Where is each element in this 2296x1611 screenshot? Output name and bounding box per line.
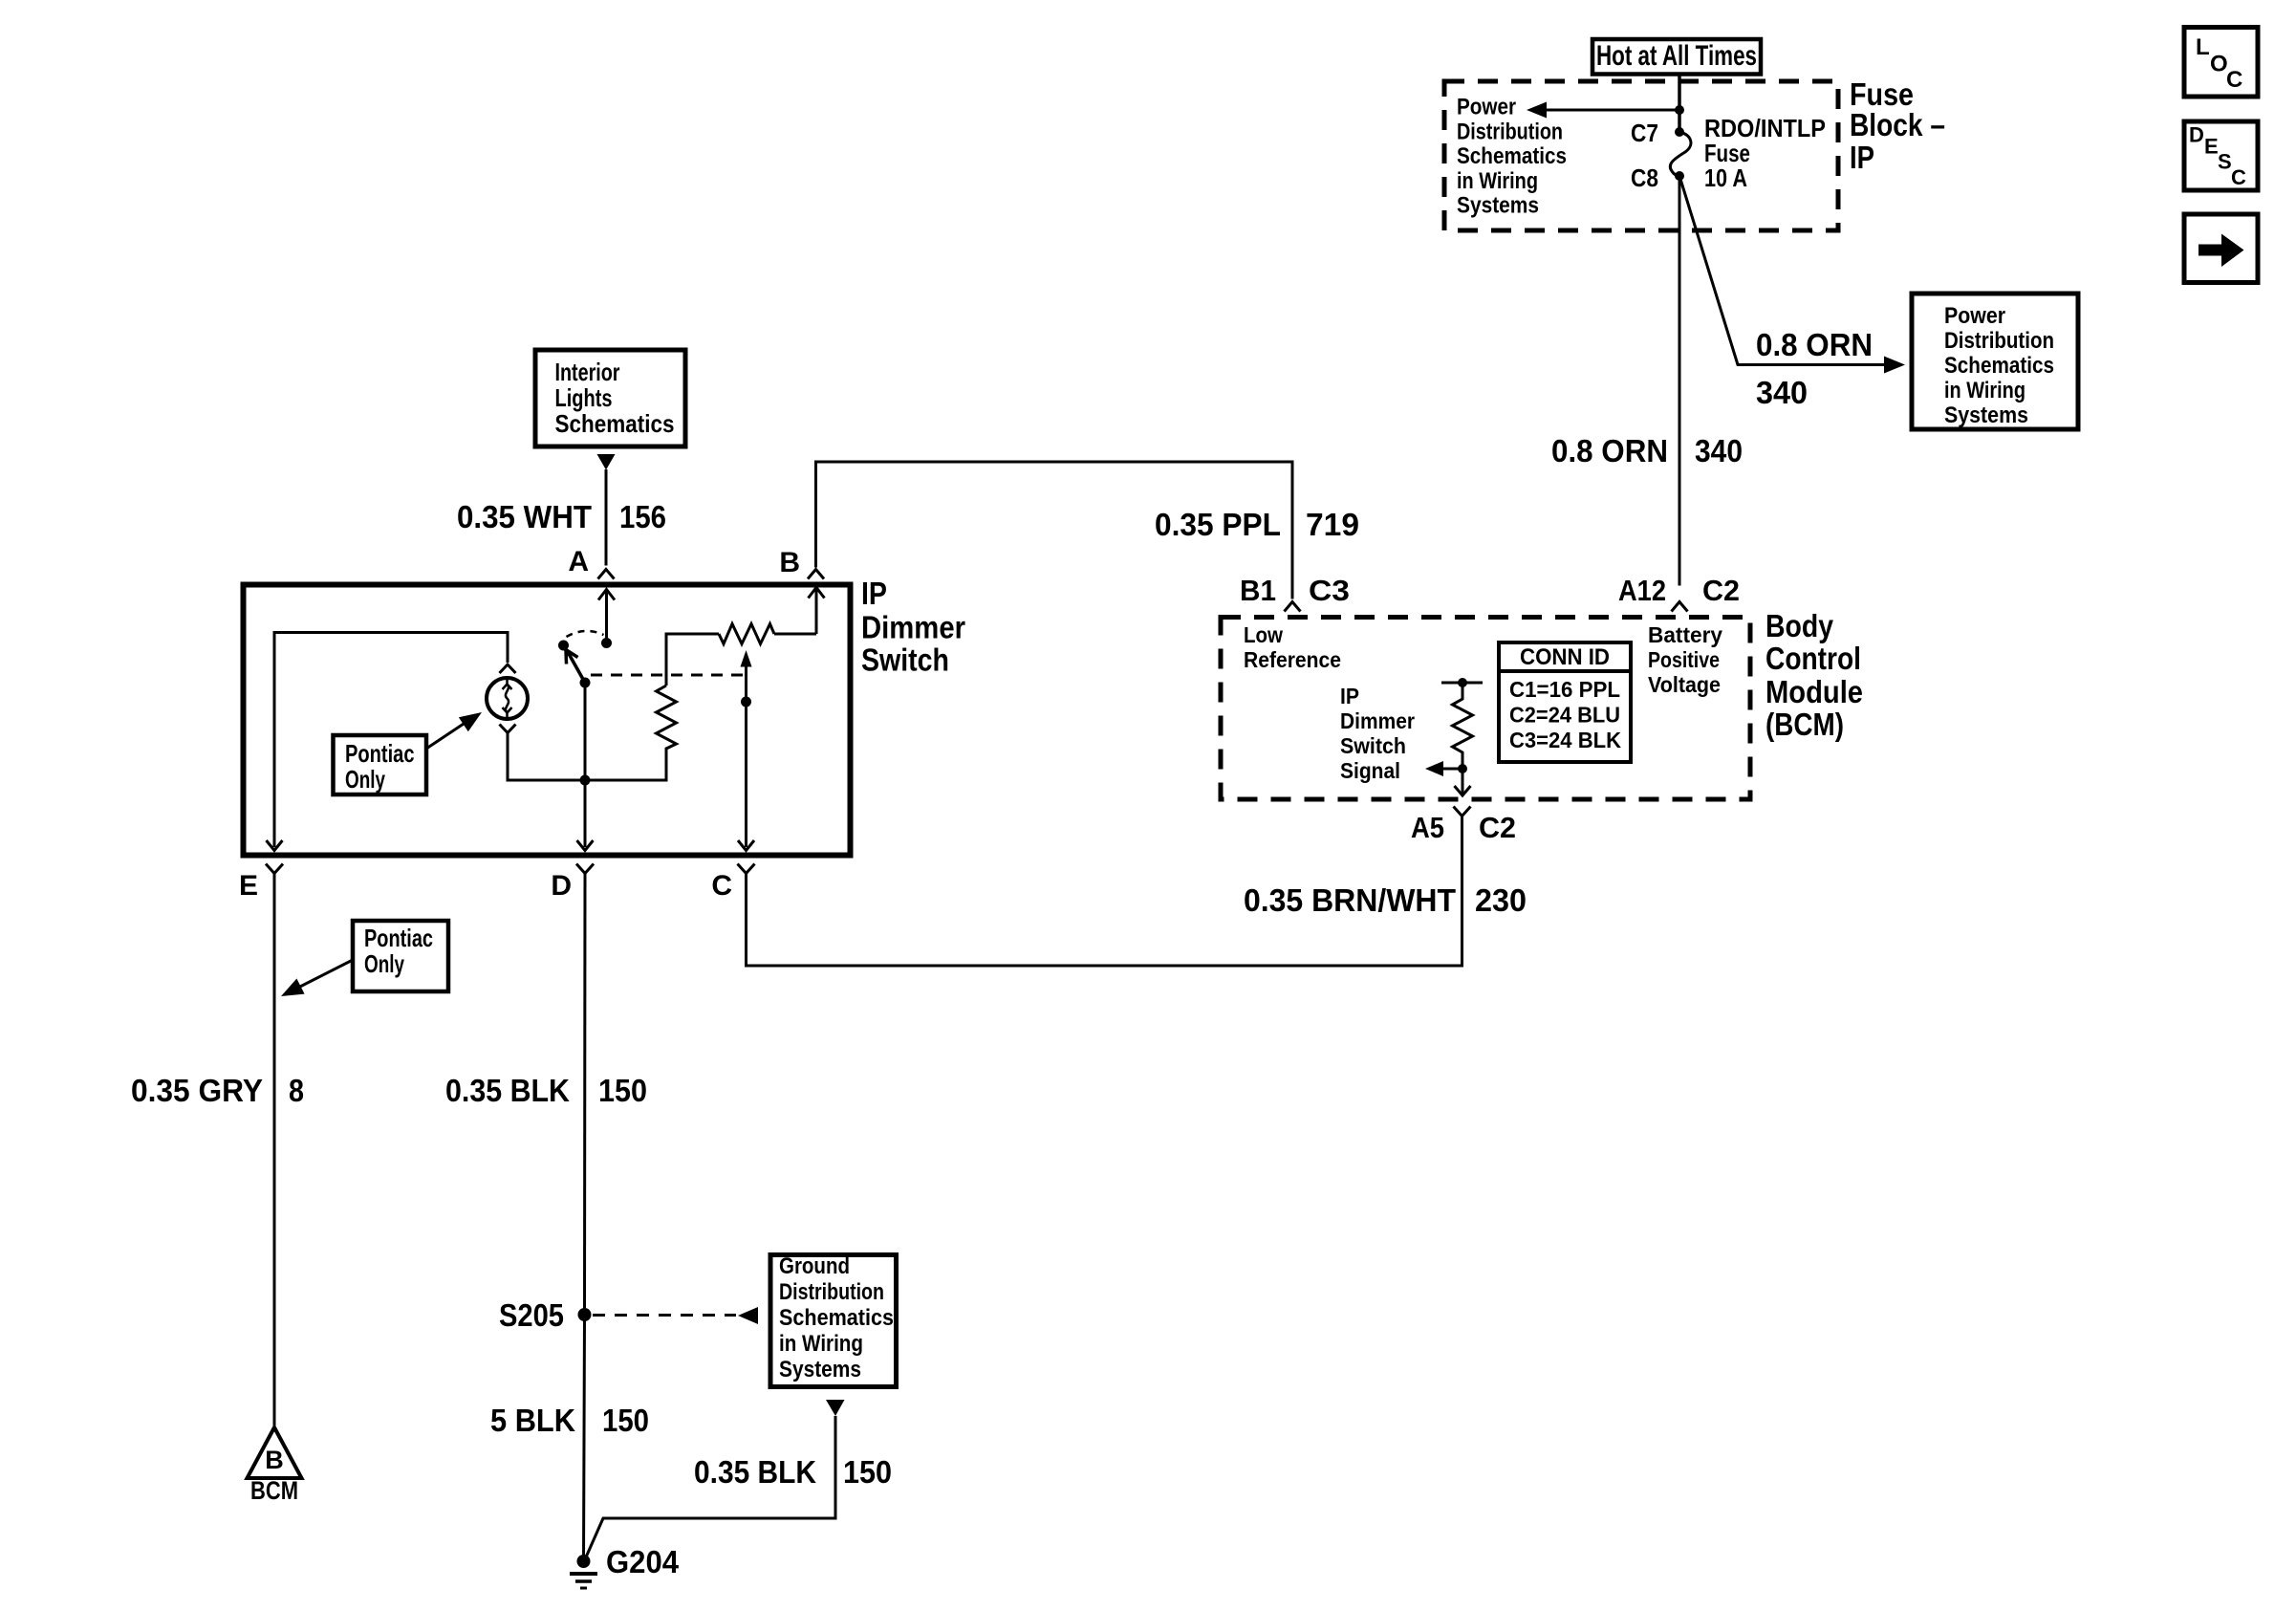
switch blade SW1 — [566, 650, 585, 684]
svg-text:150: 150 — [602, 1403, 649, 1438]
wire 0.8 ORN 340 branch from C8 to power distribution — [1679, 176, 1905, 374]
svg-text:0.35 GRY: 0.35 GRY — [131, 1073, 263, 1108]
svg-text:Distribution: Distribution — [779, 1279, 884, 1305]
svg-text:Hot at All Times: Hot at All Times — [1596, 40, 1757, 72]
svg-text:Control: Control — [1765, 641, 1861, 676]
wire 0.35 GRY 8 from E to BCM — [273, 874, 276, 1426]
wire from Hot at All Times into fuse block — [1678, 75, 1681, 131]
svg-text:S205: S205 — [499, 1297, 564, 1333]
wire 0.8 ORN 340 main battery feed to BCM A12 — [1679, 176, 1681, 586]
svg-text:719: 719 — [1306, 507, 1359, 542]
arrow IP dimmer switch signal — [1425, 761, 1462, 776]
node Low Reference — [1244, 622, 1341, 672]
wire 0.35 BRN/WHT 230 from dimmer C to BCM A5 — [747, 816, 1462, 967]
node IP Dimmer Switch Signal — [1340, 684, 1415, 783]
label 0.8 ORN 340 (main) — [1551, 433, 1743, 468]
label 0.35 BLK 150 (branch) — [694, 1454, 892, 1490]
svg-text:Reference: Reference — [1244, 647, 1341, 672]
svg-text:C2: C2 — [1479, 811, 1516, 844]
Hot at All Times box — [1592, 39, 1761, 75]
svg-text:D: D — [551, 870, 572, 902]
svg-text:A: A — [568, 546, 589, 577]
svg-text:150: 150 — [843, 1454, 892, 1490]
pin A12 connector — [1618, 574, 1740, 612]
fuse value label RDO/INTLP Fuse 10 A — [1704, 114, 1826, 192]
svg-text:IP: IP — [861, 576, 887, 611]
potentiometer wiper arrow — [741, 650, 752, 847]
node switch common — [601, 638, 612, 648]
svg-text:230: 230 — [1475, 882, 1527, 918]
wire D branch down — [584, 683, 587, 847]
svg-text:340: 340 — [1695, 433, 1743, 468]
svg-text:Power: Power — [1457, 95, 1516, 120]
junction node above fuse — [1675, 105, 1684, 115]
CONN ID table — [1499, 642, 1631, 762]
arrow Pontiac Only to E wire — [277, 960, 353, 1004]
pin A5 connector — [1411, 807, 1516, 845]
node blade junction — [580, 678, 591, 688]
wire from resistor to pin A5 with down arrow — [1455, 769, 1471, 795]
svg-text:in Wiring: in Wiring — [1457, 168, 1538, 194]
ground G204 — [570, 1544, 680, 1588]
Body Control Module (BCM) label — [1765, 608, 1863, 742]
svg-text:Switch: Switch — [1340, 733, 1406, 758]
wire lamp branch upper — [274, 633, 508, 848]
svg-text:Systems: Systems — [1457, 193, 1539, 219]
svg-text:C3: C3 — [1309, 574, 1350, 607]
svg-text:C3=24 BLK: C3=24 BLK — [1509, 728, 1621, 752]
arrow Pontiac Only to lamp — [426, 705, 487, 749]
mechanical link dashed wire — [591, 674, 746, 677]
svg-text:in Wiring: in Wiring — [779, 1331, 863, 1357]
svg-text:5 BLK: 5 BLK — [490, 1403, 575, 1438]
svg-text:Positive: Positive — [1648, 647, 1720, 672]
pin E connector — [239, 864, 283, 903]
resistor R1 dimmer (horizontal) — [719, 624, 774, 644]
svg-text:Systems: Systems — [779, 1357, 861, 1382]
arrow into box bottom at D — [577, 840, 594, 851]
Pontiac Only box 1 — [334, 735, 427, 795]
svg-text:0.35 WHT: 0.35 WHT — [457, 499, 592, 534]
dashed reference wire from S205 — [593, 1307, 758, 1324]
svg-text:0.8 ORN: 0.8 ORN — [1551, 433, 1668, 468]
svg-text:Schematics: Schematics — [1944, 353, 2054, 379]
node Battery Positive Voltage — [1648, 622, 1722, 697]
fuse F1 RDO/INTLP 10A — [1670, 127, 1691, 181]
svg-text:Body: Body — [1765, 608, 1834, 643]
svg-text:156: 156 — [619, 499, 666, 534]
svg-text:Module: Module — [1765, 674, 1863, 709]
svg-text:0.35 BLK: 0.35 BLK — [694, 1454, 816, 1490]
svg-text:Distribution: Distribution — [1944, 328, 2054, 354]
svg-text:C: C — [2226, 67, 2242, 93]
svg-text:BCM: BCM — [250, 1476, 298, 1505]
IP Dimmer Switch box — [244, 585, 851, 856]
wire switch common to pin A — [598, 590, 615, 643]
svg-text:C7: C7 — [1631, 119, 1658, 147]
wire lamp bottom to D junction — [508, 733, 666, 781]
IP Dimmer Switch label — [861, 576, 965, 678]
svg-text:0.35 PPL: 0.35 PPL — [1155, 507, 1281, 542]
svg-text:Schematics: Schematics — [779, 1305, 894, 1331]
wire resistor to vertical resistor — [666, 634, 719, 686]
svg-text:C2: C2 — [1702, 574, 1740, 607]
pin B1 connector — [1240, 574, 1350, 612]
svg-text:L: L — [2196, 34, 2210, 60]
Ground Distribution Schematics box — [770, 1253, 897, 1387]
svg-text:Interior: Interior — [555, 358, 620, 386]
Pontiac Only box 2 — [353, 921, 448, 991]
svg-text:C2=24 BLU: C2=24 BLU — [1509, 703, 1620, 728]
node wiper junction — [741, 697, 751, 708]
pin A connector — [568, 546, 614, 579]
svg-text:E: E — [2204, 135, 2219, 159]
svg-text:Switch: Switch — [861, 642, 949, 678]
splice S205 — [499, 1297, 592, 1333]
svg-text:(BCM): (BCM) — [1765, 707, 1844, 742]
svg-text:0.8 ORN: 0.8 ORN — [1756, 327, 1873, 362]
svg-text:Distribution: Distribution — [1457, 119, 1563, 144]
svg-text:Pontiac: Pontiac — [364, 924, 433, 952]
svg-text:Low: Low — [1244, 622, 1284, 647]
svg-text:Battery: Battery — [1648, 622, 1722, 647]
svg-text:Lights: Lights — [555, 383, 613, 412]
svg-text:A5: A5 — [1411, 811, 1444, 844]
svg-text:Signal: Signal — [1340, 758, 1400, 783]
pin C connector — [711, 864, 754, 903]
Power Distribution Schematics in Wiring Systems box (right) — [1912, 294, 2078, 429]
svg-text:Ground: Ground — [779, 1253, 850, 1279]
svg-text:C8: C8 — [1631, 163, 1658, 192]
node switch pivot — [558, 641, 569, 651]
wire 0.35 WHT 156 — [605, 469, 608, 566]
wire 5 BLK 150 from S205 to G204 — [584, 1315, 585, 1561]
Interior Lights Schematics box — [535, 350, 685, 446]
lamp connector top chevron — [500, 664, 516, 673]
svg-text:C: C — [711, 870, 732, 902]
svg-text:Only: Only — [345, 765, 385, 794]
svg-text:C1=16 PPL: C1=16 PPL — [1509, 677, 1620, 702]
arrow triangle below interior lights box — [597, 454, 616, 470]
pin B connector — [779, 547, 824, 579]
Power Distribution Schematics in Wiring Systems text (fuse block) — [1457, 95, 1567, 219]
label 0.35 BRN/WHT 230 — [1244, 882, 1527, 918]
Fuse Block - IP dashed box — [1444, 81, 1838, 230]
svg-text:Pontiac: Pontiac — [345, 739, 415, 768]
svg-text:in Wiring: in Wiring — [1944, 378, 2025, 403]
svg-text:340: 340 — [1756, 375, 1808, 410]
svg-text:A12: A12 — [1618, 574, 1666, 607]
resistor R-BCM pull-up — [1441, 678, 1483, 773]
label 0.8 ORN 340 (branch) — [1756, 327, 1873, 410]
svg-text:S: S — [2218, 150, 2232, 174]
svg-text:150: 150 — [598, 1073, 647, 1108]
label 0.35 PPL 719 — [1155, 507, 1359, 542]
wire 0.35 BLK 150 from D to S205 — [583, 874, 587, 1316]
svg-text:Voltage: Voltage — [1648, 672, 1721, 697]
wire 0.35 PPL 719 from dimmer B to BCM B1 — [816, 462, 1293, 599]
label 0.35 WHT 156 — [457, 499, 666, 534]
node lamp/D junction — [580, 775, 591, 786]
label 5 BLK 150 — [490, 1403, 649, 1438]
svg-text:8: 8 — [289, 1073, 304, 1108]
svg-text:B1: B1 — [1240, 574, 1276, 607]
svg-text:B: B — [265, 1446, 284, 1474]
wire pin B to dimmer resistor — [774, 588, 825, 635]
svg-text:Schematics: Schematics — [1457, 143, 1567, 169]
svg-text:IP: IP — [1340, 684, 1359, 708]
svg-text:E: E — [239, 870, 258, 902]
svg-text:Only: Only — [364, 949, 404, 978]
svg-text:0.35 BRN/WHT: 0.35 BRN/WHT — [1244, 882, 1456, 918]
svg-text:O: O — [2210, 52, 2228, 77]
svg-text:Dimmer: Dimmer — [861, 610, 965, 645]
svg-text:10 A: 10 A — [1704, 163, 1747, 192]
arrow into box bottom at C — [738, 840, 754, 851]
svg-text:G204: G204 — [606, 1544, 680, 1579]
wire 0.35 BLK 150 ground branch — [585, 1416, 835, 1559]
LOC reference box — [2184, 28, 2258, 98]
svg-text:CONN ID: CONN ID — [1520, 644, 1610, 670]
svg-text:D: D — [2189, 123, 2204, 147]
DESC reference box — [2184, 121, 2258, 190]
forward arrow reference box — [2184, 214, 2258, 283]
svg-text:IP: IP — [1850, 140, 1874, 175]
resistor R2 (vertical) — [657, 686, 677, 753]
arrow triangle below ground distribution box — [826, 1400, 845, 1416]
svg-text:B: B — [779, 547, 800, 578]
label 0.35 BLK 150 — [445, 1073, 647, 1108]
BCM destination triangle — [248, 1427, 302, 1505]
svg-text:C: C — [2231, 165, 2246, 189]
svg-text:Systems: Systems — [1944, 403, 2028, 428]
Body Control Module dashed box — [1221, 618, 1750, 800]
switch throw dashed arc — [567, 631, 604, 637]
pin D connector — [551, 864, 594, 903]
svg-text:Schematics: Schematics — [555, 409, 675, 438]
svg-text:0.35 BLK: 0.35 BLK — [445, 1073, 570, 1108]
arrow into box bottom at E — [267, 840, 283, 851]
svg-text:Dimmer: Dimmer — [1340, 708, 1415, 733]
lamp DS1 (Pontiac only illumination) — [487, 678, 528, 719]
svg-text:Power: Power — [1944, 303, 2005, 329]
lamp connector bottom chevron — [500, 725, 516, 733]
label 0.35 GRY 8 — [131, 1073, 304, 1108]
svg-text:Block –: Block – — [1850, 107, 1945, 142]
arrow wire to power distribution reference — [1527, 102, 1679, 119]
Fuse Block - IP label — [1850, 76, 1945, 175]
